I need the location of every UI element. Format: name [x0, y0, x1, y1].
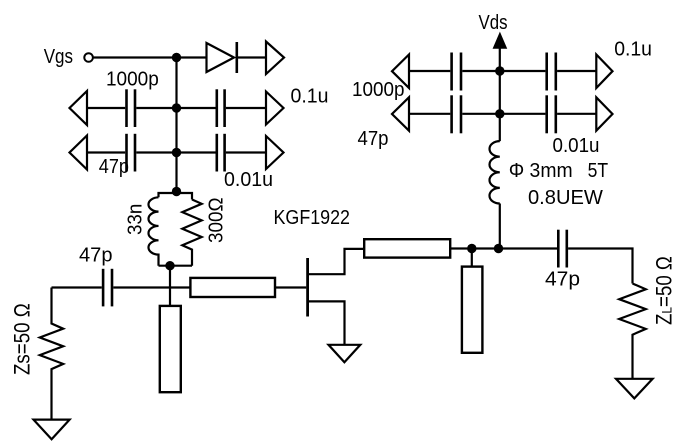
svg-text:5T: 5T [588, 160, 609, 182]
wire [462, 113, 545, 115]
svg-text:300Ω: 300Ω [206, 197, 228, 243]
svg-text:33n: 33n [125, 204, 147, 235]
stub ST2 [462, 267, 483, 353]
wire [136, 107, 215, 109]
wire [238, 56, 266, 58]
capacitor C2 1000p [217, 89, 225, 127]
wire [93, 56, 176, 58]
inductor L1 33n [148, 197, 158, 265]
wire [87, 151, 125, 153]
resistor R1 300ohm [182, 200, 201, 266]
svg-text:0.8UEW: 0.8UEW [528, 187, 603, 209]
capacitor C3 47p [127, 134, 136, 172]
node Vgs terminal [84, 53, 93, 62]
terminal arrow vds row1 right [596, 55, 612, 89]
ground transistor source [329, 345, 361, 363]
wire [87, 107, 125, 109]
node drain junction 1 [467, 244, 476, 253]
resistor R2 Zs 50ohm [40, 288, 63, 420]
svg-text:ZL=50 Ω: ZL=50 Ω [652, 256, 677, 325]
capacitor C5 47p input [103, 269, 112, 307]
stub ST1 [160, 306, 181, 392]
capacitor C9 47p [452, 95, 461, 133]
terminal arrow row3 left [70, 136, 88, 170]
terminal arrow row2 right [266, 92, 284, 125]
node vds junction row1 [495, 66, 504, 75]
wire gate bias bus [175, 58, 177, 194]
svg-text:1000p: 1000p [106, 69, 159, 91]
svg-text:0.1u: 0.1u [614, 39, 652, 61]
svg-text:KGF1922: KGF1922 [274, 207, 351, 229]
wire [409, 113, 450, 115]
wire top bracket [159, 193, 193, 200]
svg-text:0.01u: 0.01u [224, 169, 273, 191]
terminal arrow row2 left [70, 91, 88, 125]
terminal arrow row1 right [266, 42, 284, 75]
node vds junction row2 [495, 109, 504, 118]
diode D1 [207, 42, 237, 73]
ground source side [34, 420, 70, 440]
svg-text:Φ 3mm: Φ 3mm [509, 160, 573, 182]
node drain junction 2 [494, 244, 503, 253]
microstrip line MS2 [364, 239, 450, 257]
wire [113, 286, 190, 288]
inductor L2 choke [489, 141, 499, 203]
wire [450, 247, 557, 249]
capacitor C6 47p output [558, 230, 567, 268]
wire vds bus [499, 71, 501, 141]
svg-text:1000p: 1000p [352, 79, 405, 101]
svg-text:Vgs: Vgs [44, 46, 73, 68]
wire [136, 151, 215, 153]
node L||R bottom [165, 261, 174, 270]
node L||R top [172, 187, 181, 196]
terminal arrow vds row1 left [392, 55, 409, 89]
wire [409, 70, 450, 72]
wire [471, 249, 473, 267]
capacitor C7 1000p [452, 53, 461, 91]
wire [568, 249, 632, 284]
microstrip line MS1 [190, 278, 275, 297]
terminal arrow vds row2 right [596, 97, 612, 130]
capacitor C8 0.1u [547, 53, 556, 91]
capacitor C1 0.1u [127, 89, 136, 127]
svg-text:0.1u: 0.1u [291, 86, 329, 108]
wire [169, 266, 171, 306]
transistor Q1 KGF1922 [308, 249, 365, 345]
wire [226, 151, 266, 153]
svg-text:Vds: Vds [479, 12, 508, 34]
node gate bias junction row2 [172, 103, 181, 112]
wire [499, 204, 501, 249]
wire [557, 70, 596, 72]
terminal arrow vds row2 left [392, 97, 409, 130]
capacitor C10 0.01u [547, 95, 556, 133]
wire [275, 286, 306, 288]
ground load side [616, 379, 653, 399]
wire [557, 113, 596, 115]
svg-text:47p: 47p [358, 128, 389, 150]
wire bottom bracket [159, 265, 193, 267]
terminal arrow row3 right [266, 136, 284, 169]
capacitor C4 0.01u [217, 134, 225, 172]
svg-text:47p: 47p [99, 156, 129, 178]
wire [226, 107, 266, 109]
svg-text:47p: 47p [545, 269, 580, 291]
wire input [52, 286, 102, 288]
resistor R3 ZL 50ohm [619, 284, 646, 379]
node gate bias junction row1 [172, 53, 181, 62]
svg-text:0.01u: 0.01u [553, 135, 600, 157]
wire [462, 70, 545, 72]
svg-text:Zs=50 Ω: Zs=50 Ω [10, 303, 35, 375]
wire [177, 56, 207, 58]
svg-text:47p: 47p [79, 245, 113, 267]
node Vds arrow [494, 34, 506, 72]
node gate bias junction row3 [172, 148, 181, 157]
